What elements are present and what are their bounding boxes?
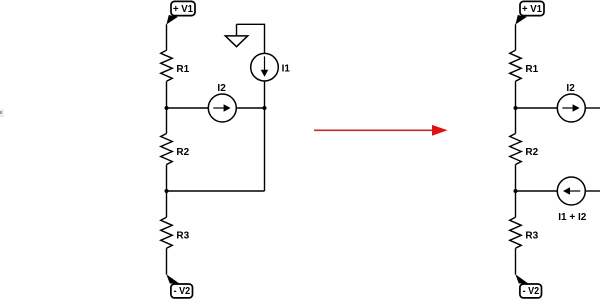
svg-text:I2: I2: [217, 83, 226, 94]
svg-text:+ V1: + V1: [173, 4, 193, 15]
svg-text:- V2: - V2: [174, 286, 191, 297]
wire V1 to R1: [166, 24, 168, 50]
wire R1 to R2 (right): [515, 81, 517, 133]
wire R2 to R3: [166, 165, 168, 218]
resistor R2: [161, 134, 190, 165]
wire I2 to edge (right): [585, 107, 600, 109]
resistor R3 (right): [510, 217, 539, 248]
flag +V1: [166, 1, 195, 24]
resistor R1: [161, 50, 190, 81]
node A junction dot: [165, 106, 169, 110]
wire R2 to R3 (right): [515, 165, 517, 218]
svg-text:I2: I2: [566, 83, 575, 94]
wire node A to I2: [167, 107, 209, 109]
svg-text:+ V1: + V1: [522, 4, 542, 15]
ground: [225, 24, 247, 46]
node C junction dot: [165, 189, 169, 193]
flag +V1 (right): [515, 1, 544, 24]
wire R3 to V2 (right): [515, 248, 517, 274]
wire I1 down to node D: [264, 81, 266, 191]
left edge artifact mark: [0, 111, 2, 114]
node F junction dot: [514, 189, 518, 193]
wire R1 to R2: [166, 81, 168, 133]
svg-text:- V2: - V2: [523, 286, 540, 297]
current source I1 + I2: [557, 177, 586, 223]
node B junction dot: [263, 106, 267, 110]
current source I2 (right): [557, 83, 585, 122]
resistor R3: [161, 217, 190, 248]
svg-text:R2: R2: [176, 147, 189, 158]
node E junction dot: [514, 106, 518, 110]
resistor R2 (right): [510, 134, 539, 165]
flag -V2: [166, 274, 192, 298]
svg-text:I1 + I2: I1 + I2: [558, 212, 587, 223]
svg-text:R2: R2: [525, 147, 538, 158]
svg-text:R3: R3: [525, 231, 538, 242]
current source I2: [208, 83, 236, 122]
wire node E to I2 (right): [516, 107, 558, 109]
svg-text:I1: I1: [282, 63, 291, 74]
transform arrow (red): [314, 125, 448, 136]
current source I1: [251, 53, 291, 81]
wire node C to node D: [167, 190, 265, 192]
wire V1 to R1 (right): [515, 24, 517, 50]
svg-text:R1: R1: [176, 64, 189, 75]
wire I2 to node B: [236, 107, 264, 109]
resistor R1 (right): [510, 50, 539, 81]
wire R3 to V2: [166, 248, 168, 274]
svg-text:R3: R3: [176, 231, 189, 242]
wire ground to I1 top: [237, 24, 265, 53]
wire node F to I1+I2 source: [516, 190, 558, 192]
flag -V2 (right): [515, 274, 541, 298]
svg-text:R1: R1: [525, 64, 538, 75]
wire I1+I2 to edge (right): [585, 190, 600, 192]
